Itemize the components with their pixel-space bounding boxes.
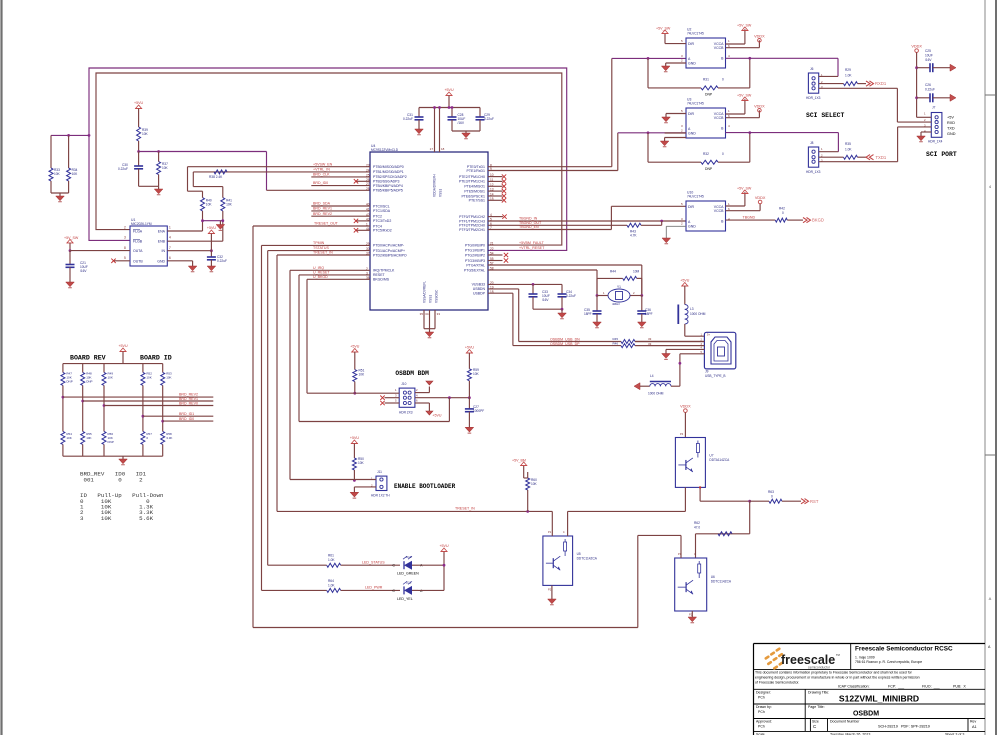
svg-text:PTC5/RxD2: PTC5/RxD2 (373, 229, 392, 233)
svg-text:PTE4/MISO1: PTE4/MISO1 (464, 185, 485, 189)
svg-text:DIR: DIR (688, 112, 695, 116)
svg-text:L4: L4 (650, 374, 654, 378)
svg-text:4: 4 (169, 236, 171, 240)
svg-text:+5VU: +5VU (134, 101, 143, 105)
svg-text:001 0 2: 001 0 2 (80, 476, 143, 483)
svg-text:DNP: DNP (108, 440, 114, 444)
svg-text:R45: R45 (612, 337, 618, 341)
svg-text:LED_GREEN: LED_GREEN (397, 572, 419, 576)
svg-text:+5VU: +5VU (465, 346, 474, 350)
svg-text:USBDP: USBDP (473, 292, 486, 296)
svg-text:VDDA/DVREFH: VDDA/DVREFH (433, 173, 437, 197)
svg-text:R29: R29 (845, 68, 851, 72)
svg-text:DIR: DIR (688, 42, 695, 46)
svg-text:1. maje 1009: 1. maje 1009 (855, 656, 875, 660)
svg-text:C: C (392, 564, 395, 568)
svg-text:33: 33 (437, 312, 441, 316)
svg-text:GND: GND (947, 132, 956, 136)
svg-text:R38 2.4K: R38 2.4K (209, 175, 223, 179)
svg-text:U6: U6 (711, 575, 715, 579)
svg-text:SCH-28219 PDF: SPF-28219: SCH-28219 PDF: SPF-28219 (878, 725, 930, 729)
svg-text:+5VU: +5VU (439, 544, 448, 548)
svg-text:10K: 10K (531, 482, 538, 486)
svg-text:RXD: RXD (947, 121, 955, 125)
svg-text:0.22uF: 0.22uF (566, 294, 576, 298)
svg-text:+5V: +5V (947, 116, 954, 120)
svg-text:10K: 10K (108, 376, 113, 380)
svg-text:TRESET_IN: TRESET_IN (313, 251, 333, 255)
svg-text:PTG0/KBIP0: PTG0/KBIP0 (465, 243, 485, 247)
svg-text:1.0K: 1.0K (328, 558, 335, 562)
svg-text:DDTA114ZCA: DDTA114ZCA (709, 458, 730, 462)
svg-text:USB_TYPE_B: USB_TYPE_B (705, 374, 726, 378)
svg-text:P2: P2 (689, 613, 693, 617)
svg-text:+5VU: +5VU (350, 345, 359, 349)
svg-text:10K: 10K (206, 203, 213, 207)
svg-text:OUTA: OUTA (133, 249, 143, 253)
svg-text:R46: R46 (612, 342, 618, 346)
svg-text:BOARD REV: BOARD REV (70, 355, 106, 362)
svg-text:R42: R42 (779, 207, 785, 211)
svg-text:Y1: Y1 (617, 285, 621, 289)
svg-text:18PF: 18PF (584, 312, 592, 316)
svg-text:+5VU: +5VU (444, 88, 453, 92)
svg-text:1: 1 (169, 225, 171, 229)
svg-text:PTF3/TPM2CH1: PTF3/TPM2CH1 (459, 228, 485, 232)
svg-text:TRESET_OUT: TRESET_OUT (314, 222, 339, 226)
svg-text:HDR_1X4: HDR_1X4 (928, 140, 943, 144)
svg-text:BRD_ID0: BRD_ID0 (179, 417, 194, 421)
svg-text:P2: P2 (548, 588, 552, 592)
svg-text:PTG2/KBIP2: PTG2/KBIP2 (465, 253, 485, 257)
svg-text:HDR 1X2 TH: HDR 1X2 TH (371, 494, 390, 498)
svg-text:OSBDM BDM: OSBDM BDM (395, 370, 429, 377)
svg-text:J9: J9 (705, 370, 709, 374)
svg-text:0: 0 (782, 211, 784, 215)
svg-text:1.0K: 1.0K (845, 148, 852, 152)
svg-text:+5VU: +5VU (680, 279, 689, 283)
svg-text:L3: L3 (690, 307, 694, 311)
svg-text:J8: J8 (810, 141, 814, 145)
svg-text:S12ZVML_MINIBRD: S12ZVML_MINIBRD (839, 694, 919, 704)
svg-text:7: 7 (169, 246, 171, 250)
svg-text:PTC0/SCL: PTC0/SCL (373, 204, 390, 208)
svg-text:VDDX: VDDX (911, 45, 922, 49)
svg-text:PTB0/MISO0/ADP0: PTB0/MISO0/ADP0 (373, 165, 404, 169)
svg-text:J7: J7 (932, 106, 936, 110)
svg-text:33: 33 (648, 337, 652, 341)
svg-text:35: 35 (420, 312, 424, 316)
svg-text:OSBDM_USB_DN: OSBDM_USB_DN (550, 337, 580, 341)
svg-text:VDDX: VDDX (754, 34, 765, 38)
svg-text:R31: R31 (703, 78, 709, 82)
svg-text:R64: R64 (328, 579, 334, 583)
svg-text:DNP: DNP (705, 167, 713, 171)
svg-text:HDR_1X3: HDR_1X3 (806, 96, 821, 100)
svg-text:OSBDM: OSBDM (853, 711, 879, 718)
svg-text:GND: GND (688, 131, 696, 135)
svg-text:PTG4/XTAL: PTG4/XTAL (466, 263, 485, 267)
svg-text:ENABLE BOOTLOADER: ENABLE BOOTLOADER (394, 483, 456, 490)
svg-text:GND: GND (157, 259, 165, 263)
svg-text:BRD_ID0: BRD_ID0 (313, 181, 328, 185)
svg-text:VSSA/DVREFL: VSSA/DVREFL (423, 281, 427, 303)
svg-text:PTB4/KBIP4/ADP4: PTB4/KBIP4/ADP4 (373, 184, 403, 188)
svg-text:+5VU: +5VU (207, 226, 216, 230)
svg-text:TPMIN: TPMIN (313, 241, 325, 245)
svg-text:5: 5 (124, 256, 126, 260)
svg-text:MC9S12ZVMxCLD: MC9S12ZVMxCLD (371, 148, 399, 152)
svg-text:TBGND: TBGND (743, 216, 756, 220)
svg-text:PTE1/RxD1: PTE1/RxD1 (467, 169, 486, 173)
svg-text:U5: U5 (577, 552, 581, 556)
svg-text:DDTC114ZCA: DDTC114ZCA (577, 556, 598, 560)
svg-text:PTG3/KBIP3: PTG3/KBIP3 (465, 259, 485, 263)
svg-text:ENB: ENB (158, 240, 166, 244)
svg-text:PCh: PCh (758, 710, 765, 714)
svg-text:BKGD: BKGD (812, 218, 824, 223)
svg-text:PTB5/KBIP5/ADP5: PTB5/KBIP5/ADP5 (373, 189, 403, 193)
svg-text:+5VSW_EN: +5VSW_EN (313, 162, 333, 166)
svg-text:VCCB: VCCB (714, 46, 724, 50)
svg-text:PTD0/ACPx/ACMP-: PTD0/ACPx/ACMP- (373, 244, 405, 248)
svg-text:10K: 10K (473, 372, 480, 376)
svg-text:R35: R35 (845, 142, 851, 146)
svg-text:RXD1: RXD1 (875, 81, 887, 86)
svg-text:DDTC114ZCA: DDTC114ZCA (711, 580, 732, 584)
svg-text:FLGA: FLGA (133, 230, 143, 234)
svg-text:/16V: /16V (925, 58, 932, 62)
svg-text:0: 0 (771, 495, 773, 499)
svg-text:22: 22 (490, 247, 494, 251)
svg-text:PTC2: PTC2 (373, 215, 382, 219)
svg-text:IN: IN (162, 249, 166, 253)
svg-text:SCI SELECT: SCI SELECT (806, 112, 845, 119)
svg-text:Size: Size (812, 720, 819, 724)
svg-text:Drawn by:: Drawn by: (756, 705, 772, 709)
svg-text:P1: P1 (548, 530, 552, 534)
svg-text:10K: 10K (359, 373, 366, 377)
svg-text:10M: 10M (633, 270, 640, 274)
svg-text:Page Title:: Page Title: (808, 705, 825, 709)
svg-text:HDR 2X3: HDR 2X3 (399, 411, 413, 415)
svg-text:PTC1/SDA: PTC1/SDA (373, 209, 391, 213)
svg-text:Designer:: Designer: (756, 690, 771, 694)
svg-text:10K: 10K (72, 172, 79, 176)
svg-text:LED_STATUS: LED_STATUS (362, 560, 385, 564)
svg-text:+5VU: +5VU (118, 344, 127, 348)
svg-text:PTC3/TxD2: PTC3/TxD2 (373, 219, 391, 223)
svg-text:+5VU: +5VU (350, 436, 359, 440)
svg-text:PTF0/TPM1CH2: PTF0/TPM1CH2 (459, 215, 485, 219)
svg-text:RST: RST (810, 499, 819, 504)
svg-text:TSTATUS: TSTATUS (313, 246, 329, 250)
svg-text:+5V_SW: +5V_SW (737, 94, 752, 98)
svg-text:10K: 10K (54, 172, 61, 176)
svg-text:3: 3 (124, 236, 126, 240)
svg-text:+5VU: +5VU (432, 414, 441, 418)
svg-text:VCCB: VCCB (714, 116, 724, 120)
svg-text:BRD_ID1: BRD_ID1 (179, 412, 194, 416)
svg-text:10UF: 10UF (925, 54, 933, 58)
svg-text:BKGD/MS: BKGD/MS (373, 278, 390, 282)
svg-text:PUB: X: PUB: X (953, 685, 966, 689)
svg-text:P1: P1 (678, 552, 682, 556)
svg-text:2: 2 (124, 225, 126, 229)
svg-text:10K: 10K (66, 436, 71, 440)
svg-text:5+: 5+ (707, 333, 710, 337)
svg-text:TXD1: TXD1 (876, 155, 887, 160)
svg-text:PCh: PCh (758, 725, 765, 729)
svg-text:1.0K: 1.0K (845, 74, 852, 78)
svg-text:0: 0 (722, 152, 724, 156)
svg-text:GND: GND (688, 61, 696, 65)
svg-text:0.22uF: 0.22uF (217, 259, 227, 263)
svg-text:10K: 10K (358, 461, 365, 465)
svg-text:PTD1/ACPx/ACMP+: PTD1/ACPx/ACMP+ (373, 249, 405, 253)
svg-text:3.3K: 3.3K (166, 436, 172, 440)
svg-text:BRD_REV0: BRD_REV0 (179, 401, 198, 405)
svg-text:VCCB: VCCB (714, 209, 724, 213)
svg-text:PTE7/SS1: PTE7/SS1 (469, 199, 485, 203)
svg-text:8: 8 (124, 246, 126, 250)
svg-text:1000PF: 1000PF (473, 409, 484, 413)
svg-text:756 61 Roznov p. R. Czech repu: 756 61 Roznov p. R. Czech republic, Euro… (855, 660, 922, 664)
svg-text:RESET: RESET (373, 273, 386, 277)
svg-text:FLGB: FLGB (133, 240, 143, 244)
svg-text:34: 34 (425, 312, 429, 316)
svg-text:BOARD ID: BOARD ID (140, 355, 172, 362)
svg-text:J11: J11 (377, 470, 382, 474)
svg-text:Rev: Rev (970, 720, 976, 724)
svg-text:PTB2/SPSCK0/ADP2: PTB2/SPSCK0/ADP2 (373, 175, 407, 179)
svg-text:R63: R63 (768, 490, 774, 494)
svg-text:+5V_SW: +5V_SW (64, 236, 79, 240)
svg-text:Document Number: Document Number (830, 720, 860, 724)
svg-text:28: 28 (366, 187, 370, 191)
svg-text:R44: R44 (610, 270, 616, 274)
svg-text:engineering design, procuremen: engineering design, procurement or manuf… (755, 676, 920, 680)
svg-text:U7: U7 (709, 453, 713, 457)
svg-text:IRQ/TPMCLK: IRQ/TPMCLK (373, 269, 395, 273)
svg-text:+VTRL_RESET: +VTRL_RESET (519, 246, 545, 250)
svg-text:R62: R62 (694, 521, 700, 525)
svg-text:0.22uF: 0.22uF (118, 167, 128, 171)
svg-text:C26: C26 (925, 83, 931, 87)
svg-text:0.22uF: 0.22uF (403, 117, 413, 121)
svg-text:PTG5/EXTAL: PTG5/EXTAL (464, 268, 485, 272)
svg-text:semiconductor: semiconductor (808, 666, 831, 670)
svg-text:6: 6 (169, 256, 171, 260)
svg-text:DNP: DNP (705, 93, 713, 97)
svg-text:PTG1/KBIP1: PTG1/KBIP1 (465, 249, 485, 253)
svg-text:VSS1: VSS1 (439, 189, 443, 197)
svg-text:D11: D11 (406, 580, 412, 584)
svg-text:TM: TM (836, 653, 840, 657)
svg-text:VDDX: VDDX (680, 405, 691, 409)
svg-text:MIC2026-1YM: MIC2026-1YM (131, 222, 152, 226)
svg-text:ENA: ENA (158, 230, 166, 234)
svg-text:/16V: /16V (458, 121, 465, 125)
svg-text:47.0: 47.0 (694, 526, 700, 530)
svg-text:+VTRL_IN: +VTRL_IN (313, 168, 330, 172)
svg-text:+5VBM_FAULT: +5VBM_FAULT (519, 241, 545, 245)
svg-text:VUSB33: VUSB33 (472, 283, 485, 287)
svg-text:BRD_REV1: BRD_REV1 (313, 207, 332, 211)
svg-text:0: 0 (722, 78, 724, 82)
svg-text:PTD2/KBIP6/ACMPO: PTD2/KBIP6/ACMPO (373, 253, 407, 257)
svg-text:21: 21 (490, 242, 494, 246)
svg-text:J6: J6 (810, 67, 814, 71)
svg-text:10K: 10K (226, 203, 233, 207)
svg-text:10K: 10K (86, 436, 91, 440)
svg-text:VDDX: VDDX (755, 196, 766, 200)
svg-text:GND: GND (688, 224, 696, 228)
svg-text:/16V: /16V (542, 298, 549, 302)
svg-text:R61: R61 (328, 554, 334, 558)
svg-text:R32: R32 (703, 152, 709, 156)
svg-text:3 10K 5.6K: 3 10K 5.6K (80, 515, 154, 522)
svg-text:U_RESET: U_RESET (313, 271, 330, 275)
svg-text:+5V_SW: +5V_SW (656, 27, 671, 31)
svg-text:HDR_1X3: HDR_1X3 (806, 170, 821, 174)
svg-text:4MHz: 4MHz (612, 302, 620, 306)
svg-text:0.22uF: 0.22uF (925, 88, 935, 92)
svg-text:A: A (989, 596, 992, 601)
svg-text:VSSOSC: VSSOSC (435, 289, 439, 303)
svg-text:LED_YEL: LED_YEL (397, 597, 413, 601)
svg-text:PTB1/MOSI0/ADP1: PTB1/MOSI0/ADP1 (373, 170, 404, 174)
svg-text:Freescale Semiconductor RCSC: Freescale Semiconductor RCSC (855, 646, 953, 653)
svg-text:10K: 10K (166, 376, 171, 380)
svg-text:C25: C25 (925, 49, 931, 53)
svg-text:74LVC1T45: 74LVC1T45 (687, 32, 704, 36)
svg-text:DIR: DIR (688, 205, 695, 209)
svg-text:TXD: TXD (947, 127, 955, 131)
svg-text:FCP: ___: FCP: ___ (888, 685, 905, 689)
svg-text:This document contains informa: This document contains information propr… (755, 671, 913, 675)
svg-text:TRESET_IN: TRESET_IN (455, 506, 475, 510)
svg-text:+5V_SW: +5V_SW (737, 187, 752, 191)
svg-text:VSS1: VSS1 (429, 295, 433, 303)
svg-text:Approved:: Approved: (756, 720, 772, 724)
svg-text:SCI PORT: SCI PORT (926, 151, 957, 158)
svg-text:U_BKGD: U_BKGD (313, 275, 328, 279)
svg-text:BRD_SDA: BRD_SDA (313, 202, 331, 206)
svg-text:OUTB: OUTB (133, 259, 143, 263)
svg-text:A1: A1 (972, 725, 977, 729)
svg-text:10K: 10K (162, 166, 169, 170)
svg-text:18: 18 (441, 147, 445, 151)
svg-text:18PF: 18PF (645, 312, 653, 316)
svg-text:1.0K: 1.0K (328, 584, 335, 588)
svg-text:LED_PWR: LED_PWR (365, 586, 383, 590)
svg-text:PTE3/TPM1CH1: PTE3/TPM1CH1 (459, 180, 485, 184)
svg-text:J10: J10 (401, 382, 406, 386)
svg-text:PTE2/TPM1CH0: PTE2/TPM1CH0 (459, 175, 485, 179)
svg-text:P4: P4 (680, 432, 684, 436)
svg-text:PCh: PCh (758, 695, 765, 699)
svg-text:Drawing Title:: Drawing Title: (808, 690, 829, 694)
svg-text:VDDX: VDDX (754, 104, 765, 108)
svg-text:DNP: DNP (66, 380, 72, 384)
svg-text:74LVC1T45: 74LVC1T45 (687, 102, 704, 106)
svg-text:1000 OHM: 1000 OHM (690, 312, 706, 316)
svg-text:10K: 10K (146, 376, 151, 380)
svg-text:OSBDM_USB_DP: OSBDM_USB_DP (550, 342, 580, 346)
svg-text:74LVC1T45: 74LVC1T45 (687, 195, 704, 199)
svg-text:TBGND_EN: TBGND_EN (519, 225, 539, 229)
svg-text:ICAP Classification:: ICAP Classification: (838, 685, 870, 689)
svg-text:BRD_CLK: BRD_CLK (313, 173, 330, 177)
svg-text:4.7K: 4.7K (630, 234, 637, 238)
svg-text:DNP: DNP (86, 380, 92, 384)
svg-text:1000 OHM: 1000 OHM (648, 392, 664, 396)
svg-text:C: C (392, 589, 395, 593)
svg-text:FIUO: ___: FIUO: ___ (922, 685, 941, 689)
svg-text:/16V: /16V (80, 269, 87, 273)
svg-text:U_IRQ: U_IRQ (313, 266, 324, 270)
svg-text:BRD_REV1: BRD_REV1 (179, 397, 198, 401)
svg-text:of Freescale Semiconductor.: of Freescale Semiconductor. (755, 681, 799, 685)
svg-text:17: 17 (430, 147, 434, 151)
svg-text:+5V_SW: +5V_SW (737, 24, 752, 28)
svg-text:D10: D10 (406, 555, 412, 559)
svg-text:0.22uF: 0.22uF (484, 117, 494, 121)
svg-text:PTE5/MOSI1: PTE5/MOSI1 (464, 189, 485, 193)
svg-text:BRD_REV2: BRD_REV2 (313, 212, 332, 216)
svg-text:10K: 10K (142, 132, 149, 136)
